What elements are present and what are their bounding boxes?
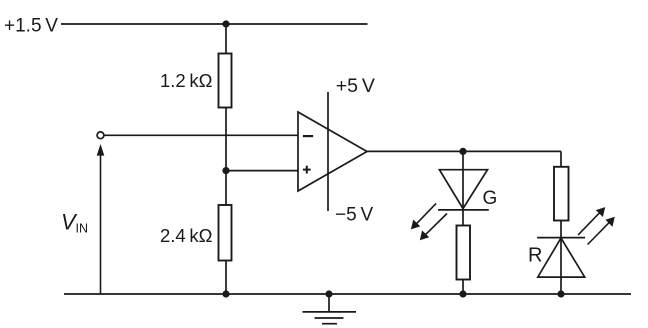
Vin arrow (97, 144, 105, 294)
LED G (438, 170, 489, 210)
wire non-inverting input (226, 170, 298, 172)
wire G resistor to rail (462, 280, 464, 295)
node junction top rail (222, 20, 229, 27)
LED R (537, 238, 585, 278)
resistor R 1.2k (219, 54, 232, 108)
wire divider middle node (225, 108, 227, 206)
svg-text:1.2 kΩ: 1.2 kΩ (160, 70, 213, 91)
wire R1 top lead (225, 24, 227, 54)
wire R LED branch (560, 221, 562, 295)
svg-text:+1.5 V: +1.5 V (4, 16, 58, 37)
svg-text:2.4 kΩ: 2.4 kΩ (160, 225, 213, 246)
wire bottom ground rail (64, 293, 631, 295)
wire G branch (462, 151, 464, 225)
resistor G-branch (457, 226, 471, 280)
wire R branch drop (560, 151, 562, 166)
node junction divider (222, 167, 229, 174)
node junction rail R2 (222, 290, 229, 297)
wire top +1.5V rail (61, 23, 368, 25)
node junction rail R (557, 290, 564, 297)
svg-text:R: R (528, 245, 542, 267)
node junction rail G (459, 290, 466, 297)
resistor R-branch (554, 167, 569, 221)
svg-text:+5 V: +5 V (336, 75, 375, 97)
node junction rail gnd (325, 290, 332, 297)
ground (303, 294, 357, 324)
wire R2 bottom lead (225, 261, 227, 295)
svg-text:−5 V: −5 V (335, 205, 373, 226)
LED G emission arrows (411, 203, 447, 240)
op-amp U1 (298, 112, 367, 191)
wire op-amp power line (327, 92, 329, 211)
wire inverting input (104, 134, 298, 136)
wire op-amp output (367, 150, 561, 152)
node junction output (459, 148, 466, 155)
svg-text:IN: IN (76, 222, 89, 236)
resistor R 2.4k (219, 205, 232, 261)
LED R emission arrows (578, 207, 615, 244)
node input terminal (97, 132, 104, 139)
svg-text:G: G (483, 188, 498, 209)
